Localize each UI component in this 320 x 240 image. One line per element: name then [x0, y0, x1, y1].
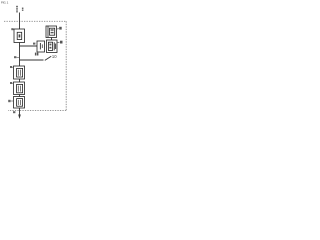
svg-text:FIG. 1: FIG. 1: [1, 1, 9, 5]
svg-text:10: 10: [52, 54, 57, 59]
